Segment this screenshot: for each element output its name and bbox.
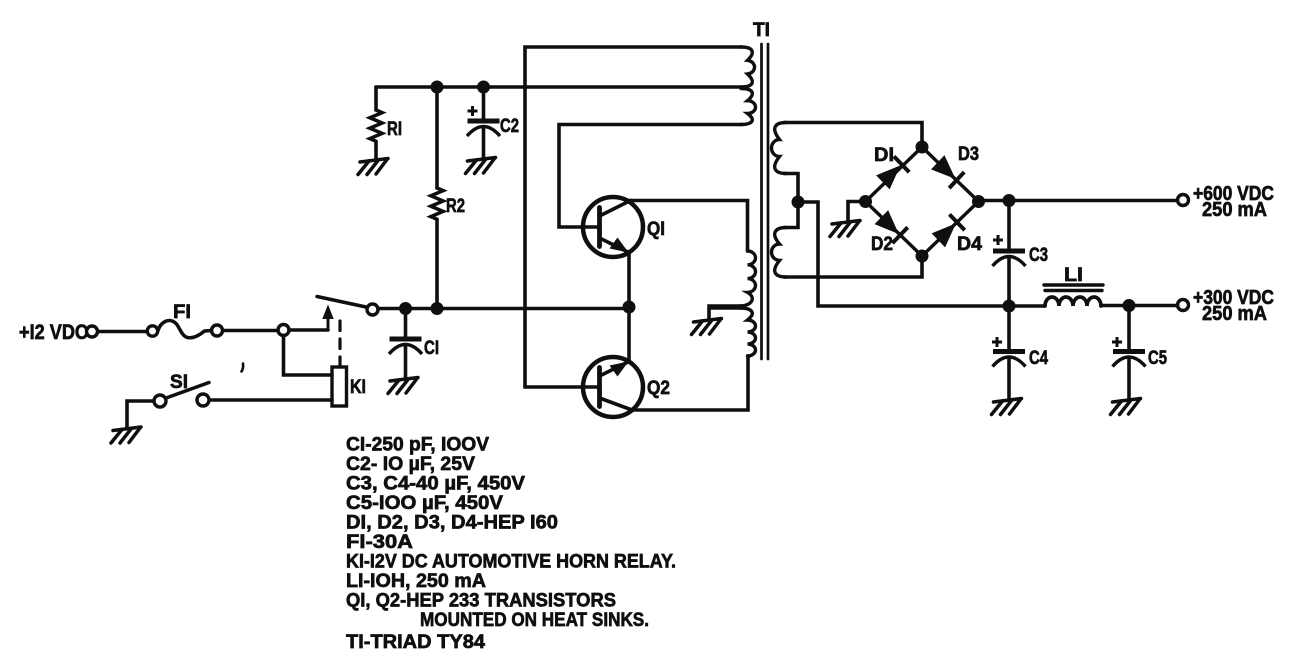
svg-text:250 mA: 250 mA [1202, 199, 1267, 221]
svg-text:KI: KI [350, 377, 366, 398]
svg-text:+I2 VDC: +I2 VDC [19, 321, 88, 344]
ground at C1 [388, 378, 418, 394]
wire junction to arrow base [289, 328, 328, 332]
wire bias rail y=87 [376, 85, 742, 89]
wire C1 drop [404, 309, 408, 338]
diode D4 [931, 214, 965, 248]
svg-text:RI: RI [387, 119, 402, 140]
wire L1 to +300 terminal [1101, 304, 1178, 308]
capacitor C1 [389, 339, 422, 354]
relay fixed contact [367, 304, 378, 315]
parts list [346, 434, 676, 654]
terminal +12 VDC input [87, 326, 98, 337]
transformer T1 primary winding upper half [740, 251, 756, 306]
stray mark [242, 364, 244, 372]
capacitor C5 polarity [1112, 337, 1122, 347]
transformer T1 [740, 44, 786, 359]
ground at bridge negative [830, 221, 860, 237]
terminal +300 VDC output [1178, 300, 1189, 311]
node emitters junction [623, 301, 636, 314]
transformer T1 secondary winding lower half [772, 228, 787, 278]
ground at C2 [466, 158, 496, 174]
wire bridge diamond [866, 147, 979, 256]
wire R1 top leg [374, 87, 378, 110]
svg-text:R2: R2 [446, 196, 465, 217]
wire top loop to Q2 base [525, 47, 742, 387]
wire feedback winding bottom to Q1 base [559, 125, 742, 228]
node secondary center tap [792, 196, 805, 209]
relay coil K1 box [332, 367, 347, 406]
diode D1 [876, 156, 910, 190]
svg-text:C5: C5 [1148, 348, 1167, 369]
capacitor C4 polarity [992, 337, 1002, 347]
ground at C4 [992, 399, 1022, 415]
ground at S1 [111, 427, 141, 443]
wire bridge left corner to ground [848, 202, 866, 222]
svg-text:D3: D3 [958, 144, 979, 165]
svg-text:Q2: Q2 [647, 378, 670, 399]
wire input to fuse [98, 330, 147, 334]
diode bridge [866, 147, 979, 256]
node +300 / C5 [1123, 299, 1136, 312]
relay contact blade [317, 297, 366, 308]
transformer T1 core [762, 44, 769, 359]
wire Q2 emitter rise [627, 307, 631, 362]
wire secondary tap to lower section [784, 202, 798, 228]
inductor L1 [1044, 285, 1103, 306]
switch S1 left terminal [154, 395, 166, 407]
wire primary center tap to ground [709, 306, 741, 319]
capacitor C4 [993, 352, 1026, 367]
transformer T1 feedback winding lower half [741, 89, 756, 125]
svg-text:C2: C2 [500, 116, 519, 137]
resistor R2 [431, 188, 443, 219]
fuse F1 element [158, 321, 212, 338]
capacitor C5 [1113, 352, 1146, 367]
relay armature arrow [327, 318, 330, 330]
COMPONENTS [87, 110, 444, 407]
svg-text:TI: TI [753, 20, 770, 41]
svg-text:DI: DI [874, 145, 894, 166]
switch S1 blade [168, 383, 210, 398]
wire C4 to ground [1007, 359, 1011, 400]
diode D3 [931, 155, 965, 188]
wire secondary top lead to bridge [784, 123, 922, 148]
diode D2 [874, 210, 908, 244]
wire fuse to junction [223, 329, 278, 333]
wire Q2 collector to primary bottom [632, 356, 748, 410]
wire ground riser to S1 [127, 401, 153, 428]
ground at R1 [358, 159, 388, 175]
capacitor C2 [467, 121, 500, 136]
svg-text:MOUNTED ON HEAT SINKS.: MOUNTED ON HEAT SINKS. [420, 609, 649, 631]
svg-text:QI: QI [647, 219, 665, 240]
svg-text:D4: D4 [957, 234, 982, 255]
wire C5 to ground [1127, 359, 1131, 400]
svg-text:LI: LI [1064, 265, 1083, 286]
capacitor C3 [993, 251, 1026, 266]
wire C5 drop [1127, 306, 1131, 350]
wire +600 line [979, 199, 1178, 203]
svg-text:FI: FI [173, 302, 191, 323]
node bias rail / R2 [431, 81, 444, 94]
wire Q1 emitter drop [627, 253, 631, 308]
node bridge top [916, 141, 929, 154]
node +600 / C3 [1003, 194, 1016, 207]
fuse F1 right terminal [212, 325, 223, 336]
wire Q1 collector to primary top [630, 201, 748, 252]
wire R1 bottom leg [374, 142, 378, 160]
wire C3 to +300 rail [1007, 258, 1011, 306]
capacitor C3 polarity [993, 235, 1003, 245]
resistor R1 [370, 110, 382, 141]
inductor L1 core bars [1044, 283, 1103, 286]
ground at C5 [1111, 399, 1141, 415]
node bias rail / C2 [477, 81, 490, 94]
node bridge bottom [916, 250, 929, 263]
transformer T1 feedback winding upper half [741, 47, 755, 87]
wire S1 to relay coil K1 [210, 398, 333, 402]
transistor Q1 [583, 197, 643, 257]
wire contact rail y=308 [378, 307, 630, 311]
wire secondary upper jog to tap [784, 174, 798, 203]
wire C4 drop [1007, 306, 1011, 350]
svg-text:250 mA: 250 mA [1202, 303, 1267, 325]
node bridge left [859, 195, 872, 208]
node rail / R2 [431, 302, 444, 315]
capacitor C2 polarity [468, 106, 478, 116]
svg-text:C3: C3 [1029, 245, 1048, 266]
wire secondary bottom lead to bridge [784, 256, 922, 277]
ground at primary center tap [692, 319, 722, 335]
transformer T1 primary winding lower half [740, 308, 756, 356]
wire junction down to relay coil K1 [284, 336, 333, 376]
svg-text:TI-TRIAD TY84: TI-TRIAD TY84 [346, 631, 485, 653]
relay mechanical link (dashed) [338, 321, 341, 366]
wire C3 drop [1007, 201, 1011, 250]
node bridge right [972, 195, 985, 208]
wire C2 drop [482, 87, 486, 119]
switch S1 right terminal [197, 394, 209, 406]
wire C2 to ground [482, 128, 486, 158]
node +300 / C3 C4 [1003, 300, 1016, 313]
svg-text:D2: D2 [871, 234, 893, 255]
wire R2 top leg [435, 87, 439, 188]
wire R2 bottom leg [435, 220, 439, 309]
svg-text:SI: SI [170, 372, 188, 393]
terminal +600 VDC output [1178, 195, 1189, 206]
node junction at relay armature feed [278, 325, 289, 336]
transformer T1 secondary winding upper half [772, 123, 787, 174]
transistor Q2 [583, 357, 643, 417]
svg-text:C4: C4 [1029, 348, 1048, 369]
wire C1 to ground [404, 346, 408, 378]
svg-text:CI: CI [424, 338, 439, 359]
node rail / C1 [399, 302, 412, 315]
JUNCTION DOTS [399, 81, 1136, 316]
fuse F1 left terminal [147, 326, 157, 336]
wire center tap to +300 rail [798, 202, 1045, 306]
